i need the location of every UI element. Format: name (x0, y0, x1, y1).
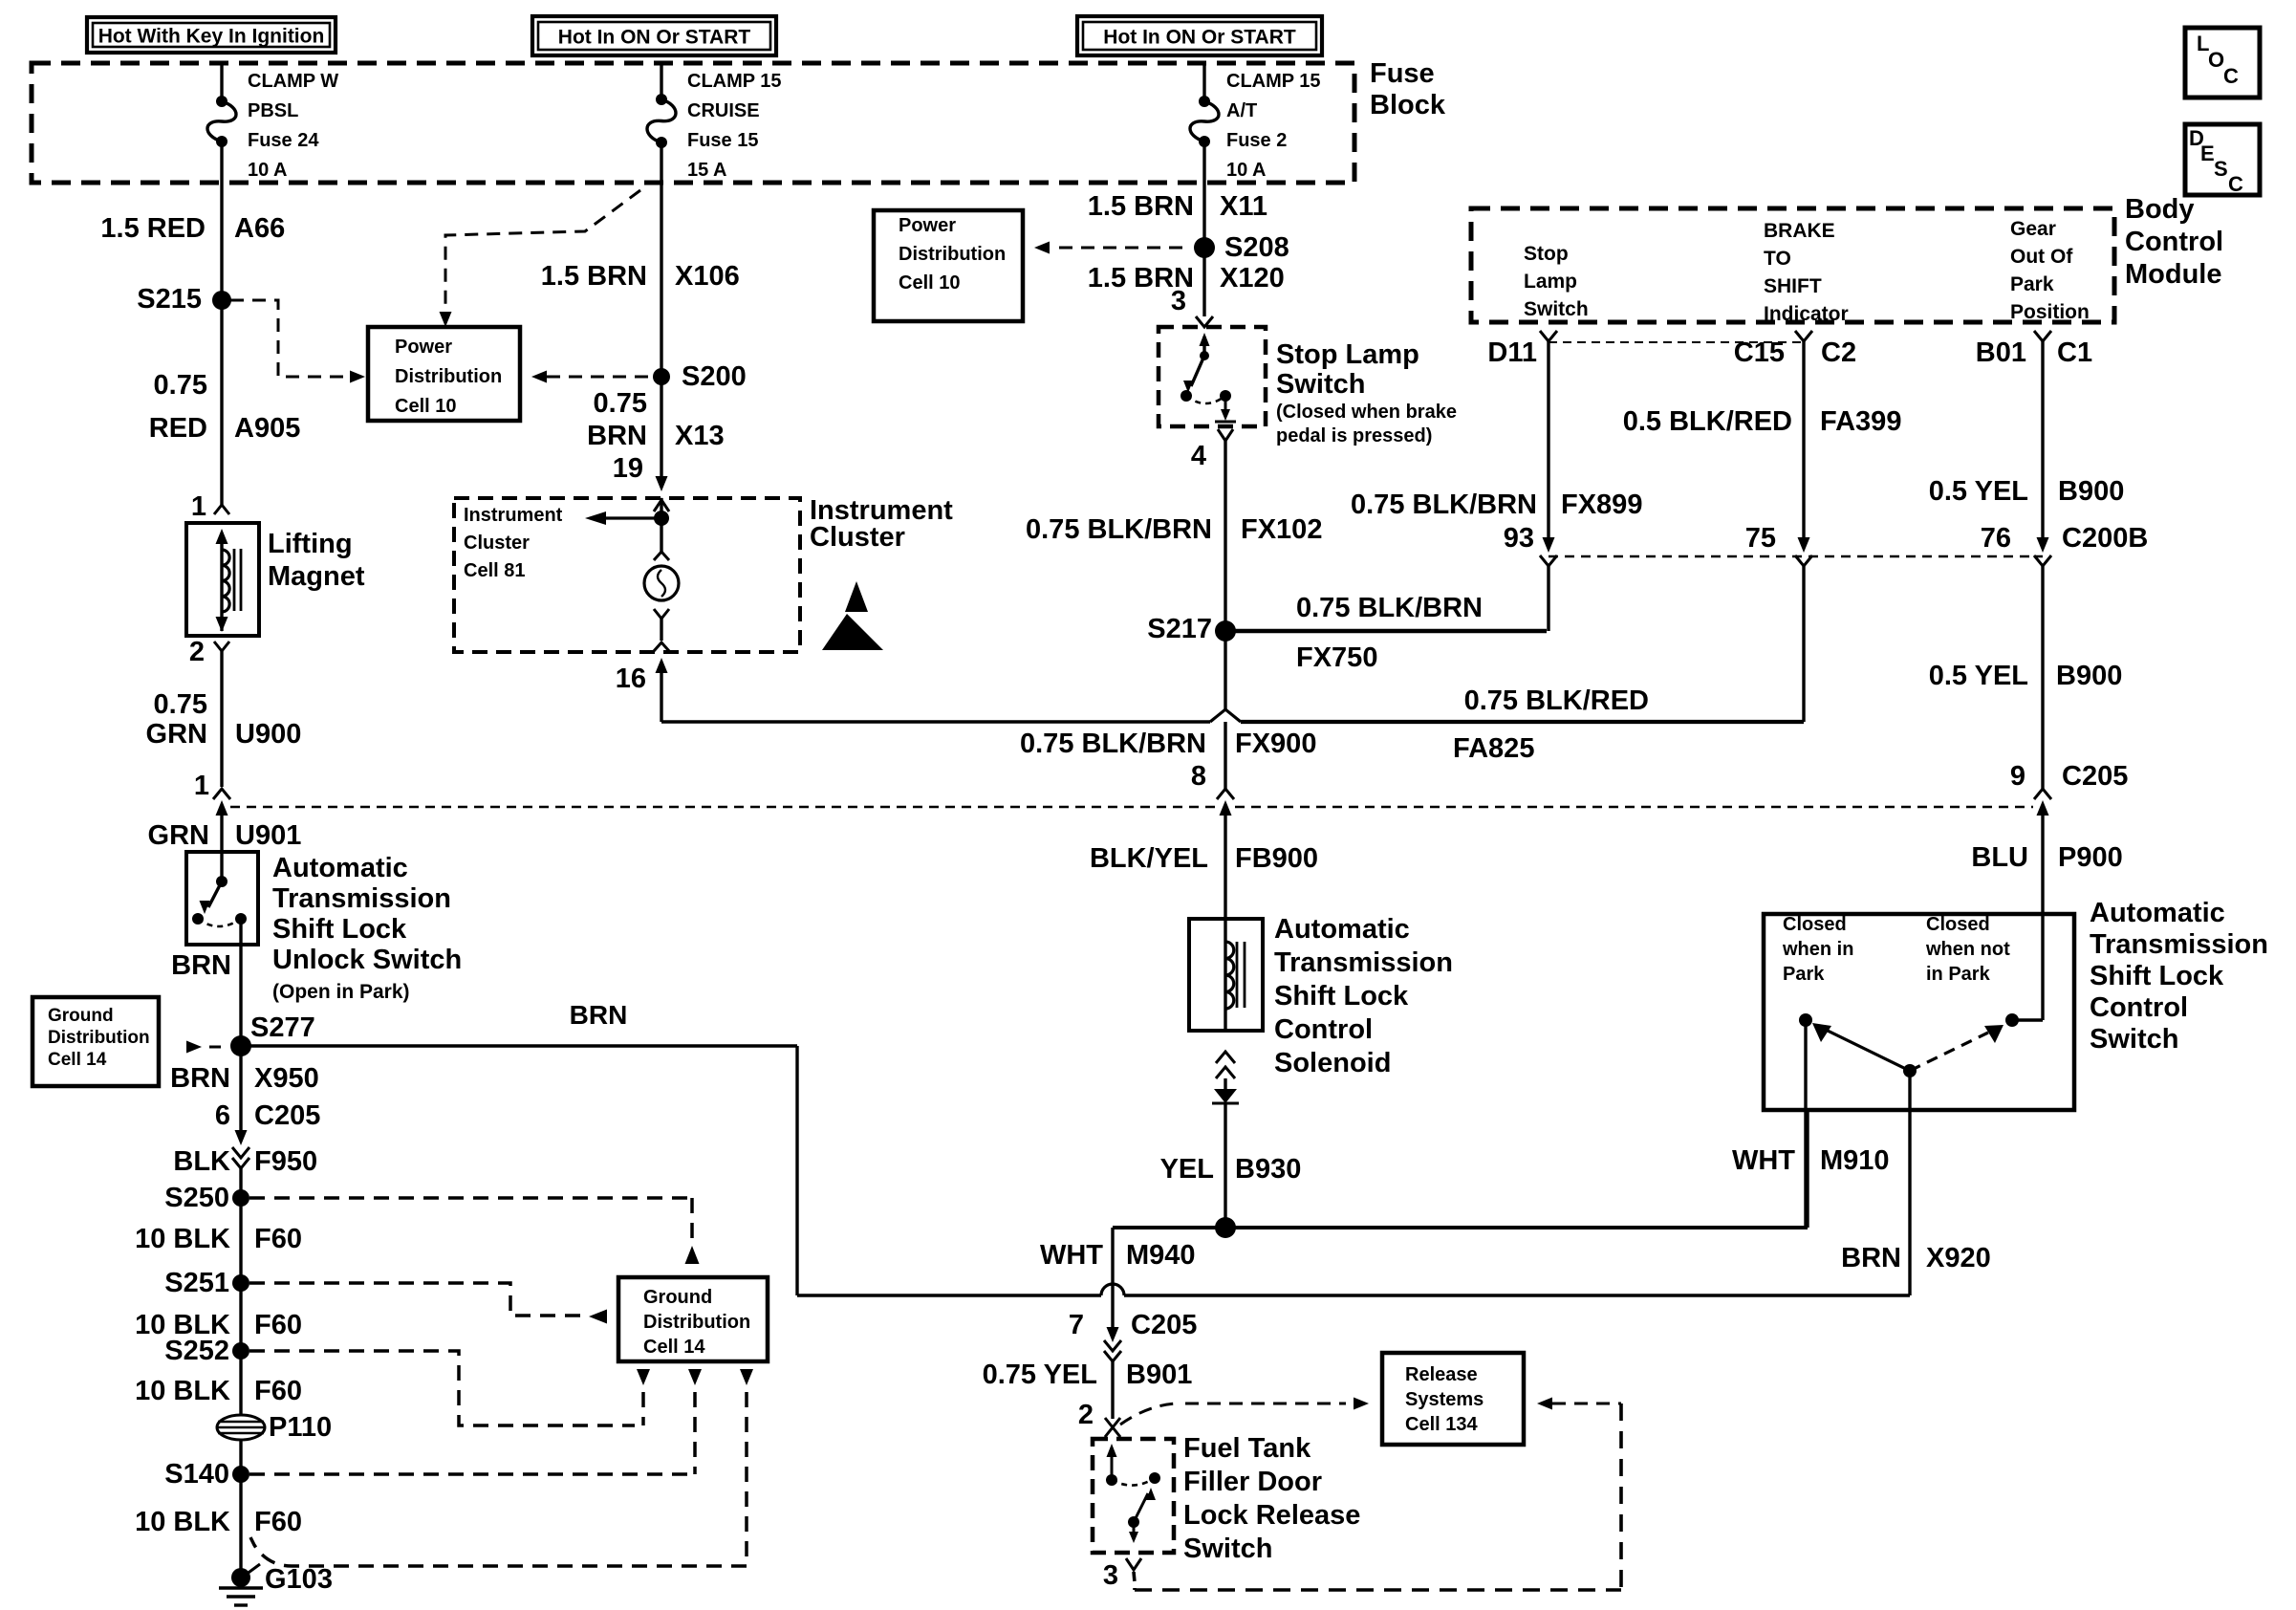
svg-text:Cell 10: Cell 10 (395, 396, 456, 417)
svg-text:Control: Control (2090, 992, 2188, 1023)
svg-text:Cell 81: Cell 81 (464, 560, 525, 581)
svg-text:F60: F60 (254, 1376, 302, 1406)
svg-text:Cell 10: Cell 10 (899, 272, 960, 294)
svg-text:Fuse: Fuse (1370, 58, 1435, 89)
svg-text:Distribution: Distribution (899, 244, 1006, 265)
svg-text:S215: S215 (137, 284, 202, 315)
svg-text:BLK: BLK (173, 1146, 230, 1177)
svg-text:2: 2 (1078, 1400, 1094, 1430)
svg-text:7: 7 (1069, 1310, 1084, 1340)
svg-text:Module: Module (2125, 259, 2222, 290)
svg-text:SHIFT: SHIFT (1764, 275, 1822, 297)
svg-text:10 A: 10 A (248, 160, 288, 181)
svg-text:CLAMP 15: CLAMP 15 (1226, 71, 1321, 92)
svg-text:10 BLK: 10 BLK (135, 1224, 230, 1254)
svg-text:Lock Release: Lock Release (1183, 1500, 1360, 1531)
svg-text:M940: M940 (1126, 1240, 1196, 1271)
svg-text:BRN: BRN (1841, 1243, 1901, 1273)
svg-text:U901: U901 (235, 820, 301, 851)
svg-text:0.75: 0.75 (154, 689, 207, 720)
svg-text:when not: when not (1925, 939, 2010, 960)
svg-text:B900: B900 (2056, 661, 2122, 691)
svg-text:(Open in Park): (Open in Park) (272, 981, 410, 1003)
svg-text:when in: when in (1782, 939, 1853, 960)
svg-text:F60: F60 (254, 1507, 302, 1537)
svg-text:Block: Block (1370, 90, 1446, 120)
svg-text:Stop: Stop (1524, 243, 1569, 265)
svg-text:0.75 BLK/RED: 0.75 BLK/RED (1464, 685, 1649, 716)
svg-text:Gear: Gear (2010, 218, 2056, 240)
svg-text:C: C (2228, 172, 2243, 196)
svg-text:Power: Power (899, 215, 956, 236)
svg-text:3: 3 (1171, 286, 1186, 316)
svg-text:Solenoid: Solenoid (1274, 1048, 1391, 1078)
svg-text:Lifting: Lifting (268, 529, 353, 559)
svg-text:Distribution: Distribution (643, 1312, 750, 1333)
svg-text:10 BLK: 10 BLK (135, 1376, 230, 1406)
svg-text:FA399: FA399 (1820, 406, 1901, 437)
svg-text:Automatic: Automatic (2090, 898, 2225, 928)
svg-text:0.75: 0.75 (154, 370, 207, 401)
svg-text:CLAMP W: CLAMP W (248, 71, 338, 92)
svg-text:Shift Lock: Shift Lock (2090, 961, 2224, 991)
svg-text:Position: Position (2010, 301, 2090, 323)
svg-text:Control: Control (1274, 1014, 1373, 1045)
svg-text:Switch: Switch (1524, 298, 1589, 320)
svg-text:0.5 YEL: 0.5 YEL (1929, 661, 2028, 691)
svg-text:Park: Park (2010, 273, 2054, 295)
svg-text:GRN: GRN (146, 719, 207, 750)
svg-text:6: 6 (215, 1100, 230, 1131)
svg-text:BLK/YEL: BLK/YEL (1090, 843, 1208, 874)
svg-text:PBSL: PBSL (248, 100, 298, 121)
svg-text:1.5 BRN: 1.5 BRN (541, 261, 647, 292)
svg-text:Automatic: Automatic (1274, 914, 1410, 945)
svg-text:Release: Release (1405, 1364, 1478, 1385)
svg-text:(Closed when brake: (Closed when brake (1276, 402, 1457, 423)
svg-text:0.75 BLK/BRN: 0.75 BLK/BRN (1296, 593, 1483, 623)
svg-text:0.75 BLK/BRN: 0.75 BLK/BRN (1020, 729, 1206, 759)
svg-text:Unlock Switch: Unlock Switch (272, 945, 462, 975)
svg-text:0.75 BLK/BRN: 0.75 BLK/BRN (1351, 490, 1537, 520)
svg-text:WHT: WHT (1040, 1240, 1103, 1271)
svg-text:X106: X106 (675, 261, 740, 292)
svg-text:WHT: WHT (1732, 1145, 1795, 1176)
svg-text:C205: C205 (254, 1100, 320, 1131)
svg-text:C205: C205 (1131, 1310, 1197, 1340)
svg-text:CLAMP 15: CLAMP 15 (687, 71, 782, 92)
svg-text:Cluster: Cluster (810, 522, 905, 553)
svg-text:G103: G103 (265, 1564, 333, 1595)
svg-text:A905: A905 (234, 413, 300, 444)
svg-text:16: 16 (616, 664, 646, 694)
svg-text:F60: F60 (254, 1310, 302, 1340)
svg-text:FX899: FX899 (1561, 490, 1642, 520)
svg-text:FX750: FX750 (1296, 642, 1377, 673)
svg-text:S252: S252 (164, 1336, 229, 1366)
svg-text:Systems: Systems (1405, 1389, 1484, 1410)
svg-text:Ground: Ground (643, 1287, 712, 1308)
svg-text:Cell 134: Cell 134 (1405, 1414, 1478, 1435)
svg-text:C: C (2223, 64, 2239, 88)
svg-text:Hot With Key In Ignition: Hot With Key In Ignition (98, 26, 325, 48)
svg-text:F60: F60 (254, 1224, 302, 1254)
svg-text:Filler Door: Filler Door (1183, 1467, 1322, 1497)
svg-text:B900: B900 (2058, 476, 2124, 507)
svg-text:0.5 BLK/RED: 0.5 BLK/RED (1623, 406, 1792, 437)
svg-text:Hot In ON Or START: Hot In ON Or START (1103, 27, 1296, 49)
svg-text:S250: S250 (164, 1183, 229, 1213)
svg-text:Cell 14: Cell 14 (643, 1337, 705, 1358)
svg-text:0.75 YEL: 0.75 YEL (983, 1360, 1097, 1390)
svg-text:FX900: FX900 (1235, 729, 1316, 759)
svg-text:B901: B901 (1126, 1360, 1192, 1390)
svg-text:Fuel Tank: Fuel Tank (1183, 1433, 1311, 1464)
svg-text:FA825: FA825 (1453, 733, 1534, 764)
svg-text:BRN: BRN (171, 950, 231, 981)
svg-text:E: E (2200, 141, 2215, 165)
svg-text:Distribution: Distribution (395, 366, 502, 387)
svg-text:Fuse 24: Fuse 24 (248, 130, 319, 151)
svg-text:U900: U900 (235, 719, 301, 750)
svg-text:Fuse 15: Fuse 15 (687, 130, 758, 151)
svg-text:3: 3 (1103, 1560, 1118, 1591)
svg-text:CRUISE: CRUISE (687, 100, 760, 121)
svg-text:Shift Lock: Shift Lock (272, 914, 407, 945)
svg-text:8: 8 (1191, 761, 1206, 792)
svg-text:Power: Power (395, 337, 452, 358)
svg-text:76: 76 (1981, 523, 2011, 554)
svg-text:X120: X120 (1220, 263, 1285, 294)
svg-text:A/T: A/T (1226, 100, 1257, 121)
svg-text:in Park: in Park (1926, 964, 1991, 985)
svg-text:Cluster: Cluster (464, 533, 530, 554)
svg-text:S217: S217 (1147, 614, 1212, 644)
svg-text:0.75 BLK/BRN: 0.75 BLK/BRN (1026, 514, 1212, 545)
svg-text:S277: S277 (250, 1012, 315, 1043)
svg-text:FB900: FB900 (1235, 843, 1318, 874)
svg-text:S251: S251 (164, 1268, 229, 1298)
svg-text:Switch: Switch (1276, 369, 1365, 400)
svg-text:Instrument: Instrument (464, 505, 563, 526)
svg-text:Out Of: Out Of (2010, 246, 2073, 268)
svg-text:Magnet: Magnet (268, 561, 365, 592)
svg-text:pedal is pressed): pedal is pressed) (1276, 425, 1432, 446)
svg-text:C2: C2 (1821, 337, 1856, 368)
svg-text:Switch: Switch (2090, 1024, 2178, 1055)
svg-text:Cell 14: Cell 14 (48, 1050, 107, 1070)
svg-text:0.75: 0.75 (594, 388, 647, 419)
svg-text:F950: F950 (254, 1146, 317, 1177)
svg-text:M910: M910 (1820, 1145, 1890, 1176)
svg-text:P110: P110 (269, 1412, 332, 1443)
svg-text:10 BLK: 10 BLK (135, 1507, 230, 1537)
svg-text:RED: RED (149, 413, 207, 444)
svg-text:S: S (2214, 157, 2228, 181)
svg-text:2: 2 (189, 637, 205, 667)
svg-text:BRN: BRN (570, 1000, 628, 1030)
svg-text:C1: C1 (2057, 337, 2092, 368)
svg-text:Closed: Closed (1783, 914, 1847, 935)
svg-text:15 A: 15 A (687, 160, 727, 181)
svg-text:X13: X13 (675, 421, 725, 451)
svg-text:0.5 YEL: 0.5 YEL (1929, 476, 2028, 507)
svg-text:Control: Control (2125, 227, 2223, 257)
svg-text:Automatic: Automatic (272, 853, 408, 883)
svg-text:C200B: C200B (2062, 523, 2148, 554)
svg-text:D11: D11 (1487, 337, 1537, 368)
svg-text:C205: C205 (2062, 761, 2128, 792)
svg-text:P900: P900 (2058, 842, 2123, 873)
svg-text:S208: S208 (1224, 232, 1289, 263)
svg-text:93: 93 (1504, 523, 1534, 554)
svg-text:S200: S200 (682, 361, 747, 392)
svg-text:S140: S140 (164, 1459, 229, 1490)
svg-text:Lamp: Lamp (1524, 271, 1577, 293)
svg-text:1: 1 (194, 771, 209, 801)
svg-text:Hot In ON Or START: Hot In ON Or START (558, 27, 751, 49)
svg-text:Distribution: Distribution (48, 1028, 150, 1048)
svg-text:X920: X920 (1926, 1243, 1991, 1273)
svg-text:A66: A66 (234, 213, 285, 244)
svg-text:B01: B01 (1976, 337, 2026, 368)
svg-text:FX102: FX102 (1241, 514, 1322, 545)
svg-text:X950: X950 (254, 1063, 319, 1094)
svg-text:Body: Body (2125, 194, 2195, 225)
svg-text:YEL: YEL (1160, 1154, 1214, 1185)
svg-text:19: 19 (613, 453, 643, 484)
svg-text:X11: X11 (1220, 191, 1267, 222)
svg-text:1: 1 (191, 491, 206, 522)
svg-text:Shift Lock: Shift Lock (1274, 981, 1409, 1012)
svg-text:Park: Park (1783, 964, 1825, 985)
svg-text:BLU: BLU (1971, 842, 2028, 873)
svg-text:B930: B930 (1235, 1154, 1301, 1185)
svg-text:Ground: Ground (48, 1006, 114, 1026)
svg-text:GRN: GRN (148, 820, 209, 851)
svg-text:BRN: BRN (170, 1063, 230, 1094)
svg-text:Fuse 2: Fuse 2 (1226, 130, 1287, 151)
svg-text:BRN: BRN (587, 421, 647, 451)
svg-text:1.5 BRN: 1.5 BRN (1088, 191, 1194, 222)
svg-text:1.5 RED: 1.5 RED (100, 213, 206, 244)
svg-text:Transmission: Transmission (2090, 929, 2268, 960)
svg-text:BRAKE: BRAKE (1764, 220, 1835, 242)
svg-text:Indicator: Indicator (1764, 303, 1849, 325)
svg-text:10 A: 10 A (1226, 160, 1267, 181)
svg-text:Transmission: Transmission (272, 883, 451, 914)
svg-text:Transmission: Transmission (1274, 947, 1453, 978)
svg-text:TO: TO (1764, 248, 1791, 270)
svg-text:75: 75 (1745, 523, 1776, 554)
svg-text:Stop Lamp: Stop Lamp (1276, 339, 1419, 370)
svg-text:Closed: Closed (1926, 914, 1990, 935)
svg-text:Switch: Switch (1183, 1534, 1272, 1564)
svg-text:9: 9 (2010, 761, 2025, 792)
svg-text:4: 4 (1191, 441, 1206, 471)
svg-text:O: O (2208, 48, 2224, 72)
